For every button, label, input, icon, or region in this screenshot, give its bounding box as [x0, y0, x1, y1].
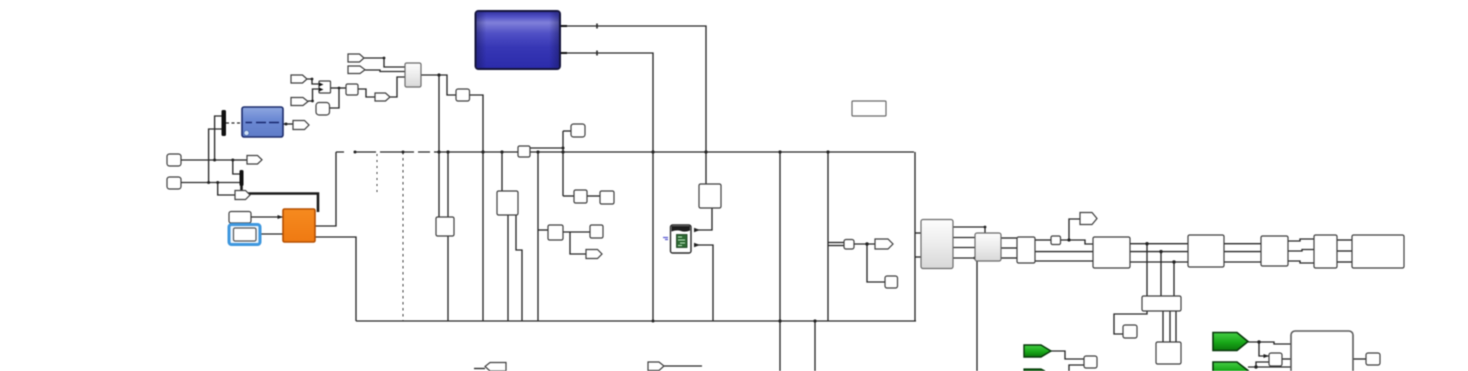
wire bus to blk_targ port2 [447, 152, 449, 217]
wire sm4 out to blk4 jog [1060, 240, 1093, 244]
wire blk4 out1 to blk5 [1130, 243, 1188, 245]
selected white block inner [234, 228, 257, 241]
wire green2 to sum_sq [1069, 365, 1084, 371]
wire drop x1161 to flat [1160, 252, 1162, 296]
tick mark on out2 [596, 51, 598, 56]
wire vertical x815 below bus [814, 321, 816, 371]
port stubs darkblue [560, 25, 567, 27]
wire blk6 outs to blk7 jogs [1288, 239, 1314, 241]
wire blk5 outs to blk6 [1224, 243, 1261, 245]
wire blk3 out1 to sm4 [1035, 239, 1051, 241]
wire chart right port2 down to bus [694, 245, 713, 321]
wire branch to pent_n [570, 232, 586, 254]
small square sq1269 [1269, 353, 1282, 366]
junction (1069,240) [1067, 238, 1070, 241]
bottom from tag partial right [648, 362, 664, 371]
junction (312,79) [311, 78, 314, 81]
junction (339,88) [338, 87, 341, 90]
wire sqC out down x483 [470, 95, 483, 321]
empty annotation rectangle [852, 101, 886, 116]
wire bigblk out to sq1366 [1353, 358, 1366, 360]
wire pent_l2 to logic in2 [308, 89, 319, 101]
junction (1147,243.7) [1145, 242, 1148, 245]
wire grad1 input1 branch [915, 232, 921, 234]
block blk_bot [1156, 342, 1181, 364]
from tag pent_t1 [348, 54, 364, 62]
wire drop x1147 to flat [1146, 244, 1148, 296]
junction (563,148) [562, 147, 565, 150]
wire vertical x780 [779, 152, 781, 371]
junction (232.8,160) [231, 159, 234, 162]
arrowhead into sq1269 [1264, 354, 1270, 358]
wire into sqD [563, 130, 571, 132]
wire flat bottom to blk_bot [1162, 311, 1164, 342]
logic block input marks [319, 83, 324, 92]
light blue block inner text dashes [246, 122, 280, 124]
junction (985,227) [984, 226, 987, 229]
wire grad1 input2 branch [915, 256, 921, 258]
arrowhead into orange in1 [278, 215, 284, 219]
selection highlight of selected block [229, 225, 260, 245]
wire sq845 out to pent870 [854, 243, 875, 245]
wire green1 to sum_sq [1051, 351, 1084, 359]
goto tag right of blue block [293, 121, 309, 130]
rounded block roundB [316, 103, 330, 116]
wire darkblue out1 down [560, 26, 706, 184]
green from tag 2 sliver [1024, 369, 1045, 371]
sum square [1084, 356, 1097, 368]
small square sqG [600, 191, 614, 204]
input port square sq2 [167, 177, 181, 189]
block blk8 [1352, 235, 1404, 268]
wire green4 to bigblk [1248, 366, 1291, 368]
wire blk3 out3 [1035, 260, 1093, 262]
wire bottom tag1 stub [474, 368, 485, 370]
chart left port mark [663, 238, 668, 240]
junction (439,75) [437, 73, 440, 76]
orange block [283, 209, 315, 242]
small square sqI [590, 225, 603, 238]
small block sq845 [844, 240, 854, 250]
goto tag pent_m [375, 93, 390, 101]
wire busblock out to sqD [530, 147, 563, 149]
wire grad1 out3 [953, 247, 975, 249]
wire blkE bottom2 jog to bus [516, 215, 522, 321]
wire grad2 outs to blk3 [1001, 237, 1017, 239]
junction (538,152) [536, 150, 539, 153]
wire mux out dashed to lightblue [226, 122, 242, 124]
junction (780,152) [778, 150, 781, 153]
wire roundB out joins sqA wire [330, 88, 339, 108]
junction (208.6,182.5) [207, 181, 210, 184]
wire top bus horizontal [336, 151, 914, 153]
wire branch to sq845 double [828, 242, 844, 244]
wire branch down to sq885 [867, 244, 885, 282]
wire bottom tag2 right [664, 365, 702, 367]
wire sqA out to pent_m [358, 89, 375, 97]
junction (653,321) [652, 320, 655, 323]
subsystem grad1 [921, 220, 953, 269]
wire mux in1 riser [215, 116, 222, 160]
from tag pent_t2 [348, 66, 365, 74]
junction (439,152) [437, 150, 440, 153]
wire pent_m out up to subsys [390, 77, 405, 97]
junction (355,152) [354, 151, 357, 154]
wire blk3 out2 [1035, 251, 1093, 253]
wire green3 to bigblk [1248, 342, 1291, 344]
from tag pent_l2 [291, 98, 308, 106]
block blk6 [1261, 236, 1288, 266]
small square sq885 [885, 276, 898, 288]
wire orange out1 to bus left end [315, 152, 336, 226]
wire green4 branch to sq1269 [1256, 362, 1269, 367]
junction (1161,251.6) [1159, 250, 1162, 253]
mux bar 2 (black) [240, 170, 244, 186]
junction (867,244) [865, 242, 868, 245]
junction (217.7,182.5) [216, 181, 219, 184]
green from tag 4 [1213, 362, 1248, 371]
wire darkblue out2 down [560, 53, 653, 321]
wire sqH to sqI [563, 231, 590, 233]
small square sq1366 [1366, 353, 1380, 365]
junction (563,152) [561, 150, 564, 153]
wire blk4 out3 to blk5 [1130, 261, 1188, 263]
goto tag pent870 [875, 239, 893, 249]
goto tag pent_n [586, 250, 602, 259]
wire vertical x828 [827, 152, 829, 321]
junction (448,152) [446, 150, 449, 153]
junction (1174,262) [1172, 260, 1175, 263]
wire grad2 bottom down [976, 261, 978, 371]
junction (780,321) [778, 319, 781, 322]
tick mark on out1 [596, 24, 598, 29]
wire blk7 outs to blk8 [1337, 239, 1352, 241]
small square sqF [574, 190, 587, 203]
block blk_targ [436, 217, 454, 236]
wire lightblue out to pentagon [283, 123, 293, 125]
wire to pent_g2 [218, 183, 235, 196]
bottom goto tag partial left [485, 363, 506, 371]
wire vertical x403 [402, 152, 404, 321]
junction (653,152) [651, 150, 654, 153]
block blk4 [1093, 237, 1130, 268]
junction (384,58) [383, 57, 386, 60]
wire whiteblk to orange in1 [251, 216, 283, 218]
logic block with input arrows [319, 81, 331, 93]
small square sqA [346, 84, 358, 95]
junction (828,152) [826, 150, 829, 153]
junction (975,258) [974, 257, 977, 260]
light blue block corner icon [244, 130, 249, 135]
wire sq2 to bar2 in2 [181, 182, 240, 184]
from tag pent_l1 [291, 75, 307, 83]
wire down to bar2 in1 [233, 160, 240, 174]
junction (706,152) [704, 150, 707, 153]
big subsystem bottom right [1291, 331, 1353, 371]
wire orange out2 to bottom bus left end [315, 237, 356, 321]
wire blk_targ bottom to bottom bus [447, 236, 449, 321]
small block on bus [518, 146, 530, 157]
junction (1259,342) [1257, 340, 1260, 343]
constant white block above selected [229, 212, 251, 224]
wire bus to blkE top [501, 152, 503, 191]
wire grad1 out4 [953, 257, 975, 259]
wire grad1 out1 jog to grad2 top [953, 227, 985, 233]
chart glyph detail [678, 237, 685, 246]
subsystem grad2 [975, 233, 1001, 261]
junction (214.6,160) [213, 159, 216, 162]
wire pent_t1 to subsys [364, 58, 405, 67]
wire flat left loop to loop_sq [1114, 311, 1147, 334]
wire mux in2 riser [209, 129, 222, 183]
small block sm4 [1051, 236, 1061, 245]
junction (502,152) [500, 150, 503, 153]
wire subsys out down to blk_targ [421, 75, 439, 217]
wire blk700 bottom to chart right in1 [694, 208, 712, 230]
green from tag 1 [1024, 345, 1051, 357]
goto tag pent1080 [1080, 213, 1097, 225]
arrowhead into bigblk in1 [1291, 342, 1297, 346]
wire logic out to sqA [330, 87, 346, 89]
arrowhead into chart port1 [694, 228, 700, 232]
wire vertical x538 [537, 152, 539, 321]
wire sq1 to junctions and bar [181, 159, 233, 161]
subsystem gradient small top [405, 63, 421, 87]
block blk5 [1188, 235, 1224, 267]
block blk7 [1314, 235, 1337, 268]
wire pent_t2 to subsys [365, 70, 405, 72]
junction (483,152) [481, 150, 484, 153]
junction (312.5,101) [311, 100, 314, 103]
wire pent_l1 to logic in1 [307, 79, 319, 84]
goto tag pent_g2 [235, 191, 250, 200]
wire blk4 out2 to blk5 [1130, 251, 1188, 253]
chart block body [671, 225, 692, 253]
wire blkE bottom1 to bus [507, 215, 509, 321]
mux bar (black) [222, 110, 227, 136]
wire into sqF [563, 195, 574, 197]
subsystem dark blue large [476, 11, 561, 69]
goto tag pent_g1 [247, 156, 262, 165]
wire branch to sqH [538, 229, 548, 231]
wire bottom bus horizontal [356, 320, 916, 322]
wire vertical x563 [562, 131, 564, 196]
junction (286,124) [285, 123, 288, 126]
arrowhead into chart port2 [694, 243, 700, 247]
thick mux bar output wire [242, 185, 319, 212]
wire grad1 out2 [953, 237, 975, 239]
wire sqC in [439, 75, 456, 95]
input port square sq1 [167, 154, 181, 166]
wire vertical x377 dashed stub [376, 154, 378, 196]
wire selected to orange in2 [259, 233, 283, 235]
junction (403,152) [402, 151, 405, 154]
wire bus right vertical [914, 152, 916, 321]
wire green3 branch to sq1269 [1259, 342, 1269, 356]
loop square [1123, 325, 1137, 338]
chart green glyph [677, 235, 688, 248]
block blkE [497, 191, 518, 215]
wire drop x1174 to flat [1173, 262, 1175, 296]
small square sqC [456, 89, 470, 101]
wire sq1269 out to bigblk [1282, 358, 1291, 360]
small square sqH [548, 225, 563, 240]
subsystem light blue (tyre model) [242, 107, 283, 137]
wire sqF to sqG [587, 195, 600, 197]
wire into pent_g1 [233, 159, 247, 161]
block blk700 [699, 184, 721, 208]
flat bus block [1142, 296, 1181, 311]
junction (1256,367) [1254, 365, 1257, 368]
junction (815,321) [813, 319, 816, 322]
block blk3 [1017, 237, 1035, 263]
chart title bar [672, 226, 691, 232]
green from tag 3 [1213, 333, 1248, 351]
small square sqD [571, 124, 585, 137]
wire branch up to pent1080 [1069, 219, 1080, 240]
